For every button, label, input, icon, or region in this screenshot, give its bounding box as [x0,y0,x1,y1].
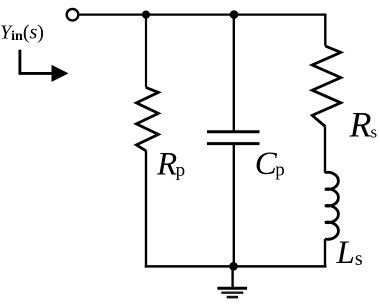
ground symbol bar 2 [221,292,243,294]
node: junction dot bottom middle (ground tap) [229,262,238,271]
inductor L_s (4-loop coil) [325,172,338,239]
resistor R_s (zigzag) [312,46,341,127]
resistor R_p (zigzag) [136,88,158,151]
svg-text:Yin(s): Yin(s) [0,22,44,44]
wire: R_p branch upper segment [145,15,147,88]
wire: R_p branch lower segment [145,151,147,268]
ground symbol bar 3 [227,296,238,299]
arrow under Y_in(s): horizontal segment [19,72,54,75]
wire: segment between R_s and L_s [324,127,326,174]
arrow under Y_in(s): vertical segment [18,50,21,74]
ground symbol bar 1 [217,287,247,290]
input terminal (open circle) [67,9,79,21]
arrow head [52,65,69,82]
wire: right branch upper segment (corner at top right) [324,14,326,46]
wire: ground stub [231,266,233,287]
wire: C_p branch lower segment [233,145,235,267]
node: junction dot top left (R_p branch tap) [142,11,150,19]
wire: L_s lower segment to bottom rail [324,239,326,266]
wire: top horizontal from terminal to right corner [80,14,326,16]
node: junction dot top middle (C_p branch tap) [230,10,239,19]
wire: C_p branch upper segment [233,15,235,131]
wire: bottom rail [145,265,327,268]
capacitor C_p top plate [207,130,260,133]
capacitor C_p bottom plate [207,142,260,145]
